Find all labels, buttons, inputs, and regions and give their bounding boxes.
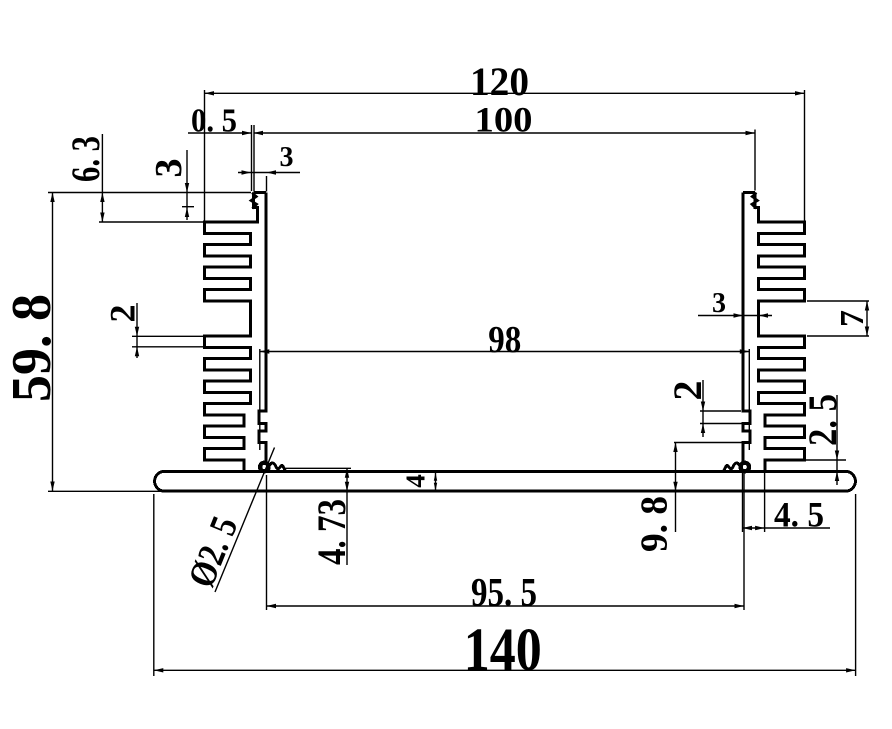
dim 4.5 line [743,527,831,529]
right wall top cap [743,191,755,194]
left wall top cap [254,191,267,194]
arrow 3 right a [734,313,744,317]
arrow 95.5 left [267,604,277,608]
arrow 120 left [205,91,215,95]
arrow 2 left bottom [135,347,139,357]
svg-text:2: 2 [665,381,710,401]
arrow 4 bottom [434,483,437,491]
svg-text:3: 3 [712,288,726,319]
arrow 2.5 bottom [835,472,839,482]
dim 6.3 bottom extension [99,221,205,223]
dim 0.5 extension a [251,125,253,191]
dim 3 lip line [186,150,188,220]
svg-text:2: 2 [103,305,143,323]
right base hump [724,463,742,471]
right screw boss [741,463,749,471]
arrow 6.3 top [100,193,104,203]
dim 2 left line [136,303,138,358]
arrow 98 right [740,349,750,353]
arrow 4 top [434,473,437,481]
dim 2 right extension bottom [700,423,744,425]
dim 120 right extension [804,90,806,221]
dim 100 right extension [754,130,756,191]
arrow 140 right [846,668,856,672]
left base hump [267,463,285,471]
arrow 3 lip top [185,183,189,193]
arrow 2 left top [135,327,139,337]
dim 2 left extension bottom [132,346,204,348]
dim 140 line [154,669,856,671]
left screw boss [260,463,268,471]
dim 7 line [866,301,868,336]
dim 100 line [254,132,756,134]
svg-text:4. 73: 4. 73 [309,499,354,565]
dim 3 lip extension [182,206,194,208]
dim 2.5 line [836,395,838,485]
arrow 2 right top [701,402,705,412]
arrow 7 bottom [865,327,869,337]
dim 120 line [205,92,805,94]
dim 3 right line [698,315,772,317]
svg-text:120: 120 [470,59,529,104]
svg-text:6. 3: 6. 3 [63,136,108,182]
svg-text:98: 98 [488,319,521,361]
arrow 2 right bottom [701,424,705,434]
dim 140 left extension [153,494,155,676]
arrow 3 wall right [267,170,277,174]
dim 0.5 leader line [188,132,252,134]
dim 98 right extension [748,349,750,450]
arrow 3 lip bottom [185,208,189,218]
dim 95.5 right extension [743,473,745,610]
dim 2 left extension top [132,335,204,337]
left lip break mark [251,193,257,209]
svg-text:3: 3 [280,142,294,173]
dim 95.5 left extension [266,475,268,610]
arrow 3 wall left [242,170,252,174]
arrow 4.5 right [755,526,765,530]
arrow 6.3 bottom [100,213,104,223]
arrow 7 top [865,301,869,311]
dim 2 right line [702,380,704,437]
left wall inner face with grooves [259,193,266,462]
dim 9.8 extension [674,442,748,444]
arrow 100 right [746,131,756,135]
svg-text:0. 5: 0. 5 [191,103,237,140]
arrow 9.8 bottom [673,482,677,492]
diameter 2.5 leader line [215,448,275,593]
dim 4.73 line [346,468,348,565]
svg-text:3: 3 [148,159,190,178]
arrow 3 right b [759,313,769,317]
base plate [155,471,856,491]
left wall comb fins [205,193,258,472]
arrow 98 left [260,349,270,353]
svg-text:2. 5: 2. 5 [800,394,845,446]
dim 59.8 line [52,193,54,492]
dim 3 wall line [238,172,300,174]
arrow 95.5 right [735,604,745,608]
arrow 140 left [154,668,164,672]
svg-text:7: 7 [834,310,871,327]
dim 7 extension bottom [807,335,869,337]
arrow 100 left [254,131,264,135]
arrow 59.8 bottom [50,482,54,492]
dim 4.73 extension [283,467,351,469]
dim 95.5 line [267,605,745,607]
wall top extension line [48,192,251,194]
svg-text:95. 5: 95. 5 [471,570,537,615]
dim 0.5 extension b [253,125,255,191]
right wall comb fins [755,193,805,472]
dim 9.8 line [675,443,677,533]
dim 4.5 extension left [742,473,744,532]
arrow 0.5 [242,131,252,135]
svg-text:59. 8: 59. 8 [1,294,63,402]
svg-text:4: 4 [401,474,431,488]
arrow 59.8 top [50,193,54,203]
dim 4 line [435,473,437,492]
arrow 120 right [795,91,805,95]
svg-text:140: 140 [464,617,542,684]
arrow 4.73 bottom [345,482,349,492]
svg-text:100: 100 [475,100,533,140]
dim 120 left extension [204,90,206,221]
dim 7 extension top [807,300,869,302]
dim 98 line [260,351,750,353]
svg-text:4. 5: 4. 5 [774,495,824,535]
dim 140 right extension [855,494,857,676]
dim 59.8 bottom extension [48,490,162,492]
svg-text:9. 8: 9. 8 [634,496,676,552]
dim 2 right extension top [700,410,741,412]
dim 6.3 line [101,134,103,222]
right lip break mark [752,193,758,209]
dim 4.5 extension right [764,471,766,532]
arrow 9.8 top [673,443,677,453]
right wall inner face with grooves [743,193,750,462]
dim 3 wall right extension [266,176,268,192]
dim 2.5 extension [806,459,846,461]
arrow 2.5 top [835,451,839,461]
dim 98 left extension [259,349,261,450]
arrow 4.73 top [345,468,349,478]
arrow 4.5 left [743,526,753,530]
